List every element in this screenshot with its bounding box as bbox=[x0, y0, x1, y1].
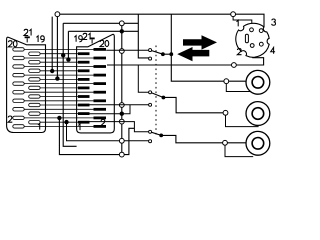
switch S3 bbox=[150, 132, 161, 136]
crossing hop circle bbox=[119, 152, 124, 157]
switch S2 bbox=[150, 92, 163, 97]
pass-through wires J1 pins to J2 pins bbox=[25, 48, 95, 50]
switch S1 bbox=[150, 50, 163, 54]
J1 label pin 2 bbox=[8, 116, 12, 122]
wire: frame left edge down to RCA1 run bbox=[171, 14, 246, 81]
vertical bus at J2 right side bbox=[121, 21, 123, 155]
wire: drop to S3 lower contact run bbox=[67, 122, 149, 141]
DIN pin 1 bbox=[250, 28, 254, 32]
wire: drop from node bottom to pin row (dot) bbox=[56, 17, 58, 79]
junction dot bbox=[55, 76, 59, 80]
junction dot bbox=[66, 57, 70, 61]
signal direction arrow left bbox=[177, 47, 209, 61]
crossing hop circle bbox=[119, 103, 124, 108]
wire: shield box top edge bbox=[63, 22, 138, 24]
wire: J2 pin 20 to S1 upper contact bbox=[106, 49, 149, 51]
hop circle on ground run bbox=[232, 63, 237, 68]
crossing hop circle bbox=[119, 119, 124, 124]
J1 label pin 1 bbox=[38, 123, 40, 129]
crossing hop circle bbox=[119, 21, 124, 26]
DIN pin 4 bbox=[259, 42, 263, 46]
J2 label pin 21 bbox=[83, 33, 87, 39]
wire: drop to bottom shield run bbox=[59, 118, 134, 155]
hop circle on RCA3 feed bbox=[223, 140, 228, 145]
wire: inner loop top edge bbox=[68, 30, 138, 32]
junction dot bbox=[169, 52, 173, 56]
DIN pin label 3 bbox=[272, 19, 276, 25]
hop circle on RCA2 feed bbox=[223, 110, 228, 115]
DIN key slot bbox=[245, 34, 248, 43]
junction dot bbox=[50, 69, 54, 73]
hop circle on top run bbox=[231, 12, 236, 17]
wire: RCA3 shield loop bbox=[225, 145, 253, 156]
wire: RCA1 shield loop bbox=[226, 84, 250, 92]
DIN pin label 1 bbox=[237, 20, 239, 26]
J1 pin contacts (pins 20..2 left column, 19..3 right column) bbox=[13, 48, 24, 51]
signal direction arrow right bbox=[183, 35, 217, 49]
wire: drop from node to pin row (dot) bbox=[51, 17, 53, 71]
junction dot bbox=[57, 116, 61, 120]
DIN pin 2 bbox=[250, 44, 254, 48]
crossing hop circle bbox=[119, 49, 124, 54]
RCA socket 3 bbox=[246, 131, 270, 155]
J2 pin contacts (solid bars, two staggered columns) bbox=[94, 48, 107, 51]
RCA socket 1 bbox=[246, 70, 270, 94]
SCART connector J2 body bbox=[77, 34, 115, 133]
DIN pin 3 bbox=[259, 29, 263, 33]
junction dot on bus bbox=[120, 29, 124, 33]
junction dot on bus bbox=[120, 112, 124, 116]
wire: S2 pole to RCA2 run bbox=[164, 97, 226, 112]
crossing hop circle bbox=[119, 138, 124, 143]
wire: J2 pin to S3 upper contact bbox=[89, 122, 148, 132]
DIN connector U1 shell bbox=[236, 23, 269, 57]
hop circle on RCA1 feed bbox=[224, 79, 229, 84]
junction dot bbox=[61, 53, 65, 57]
wire: S2 upper contact riser from ground run bbox=[138, 65, 148, 92]
wire: main top run to DIN bbox=[60, 14, 264, 27]
J1 label pin 21 bbox=[24, 29, 28, 35]
J2 label pin 2 bbox=[101, 119, 105, 125]
wire: ground run to DIN pin 2 bbox=[107, 50, 264, 66]
J1 label pin 19 bbox=[36, 36, 38, 42]
wire: J2 pin to S2 lower contact bbox=[89, 104, 148, 106]
wire: J2 pin row with junction to riser bbox=[89, 105, 130, 114]
wire: S1 pole to frame bbox=[163, 53, 171, 55]
wire: RCA2 shield loop bbox=[226, 115, 259, 126]
wire: inner loop drop bbox=[67, 31, 69, 59]
junction dot bbox=[64, 120, 68, 124]
wire: top run branch to DIN pin 1 bbox=[233, 17, 252, 28]
wire: shield box left edge (drop through pin row to bottom stub) bbox=[63, 23, 76, 146]
node circle top-left bbox=[55, 12, 60, 17]
J1 label pin 20 bbox=[8, 41, 12, 47]
gang link (dashed) bbox=[155, 46, 157, 137]
J2 label pin 20 bbox=[100, 40, 104, 46]
J2 label pin 1 bbox=[78, 124, 80, 130]
DIN pin label 4 bbox=[271, 48, 275, 54]
J2 label pin 19 bbox=[74, 36, 76, 42]
wire: S3 pole to RCA3 run bbox=[161, 135, 246, 142]
wire: drop to switch S1 lower contact bbox=[138, 14, 148, 58]
SCART connector J1 body bbox=[7, 37, 46, 132]
DIN pin label 2 bbox=[237, 49, 241, 55]
RCA socket 2 bbox=[246, 102, 270, 126]
